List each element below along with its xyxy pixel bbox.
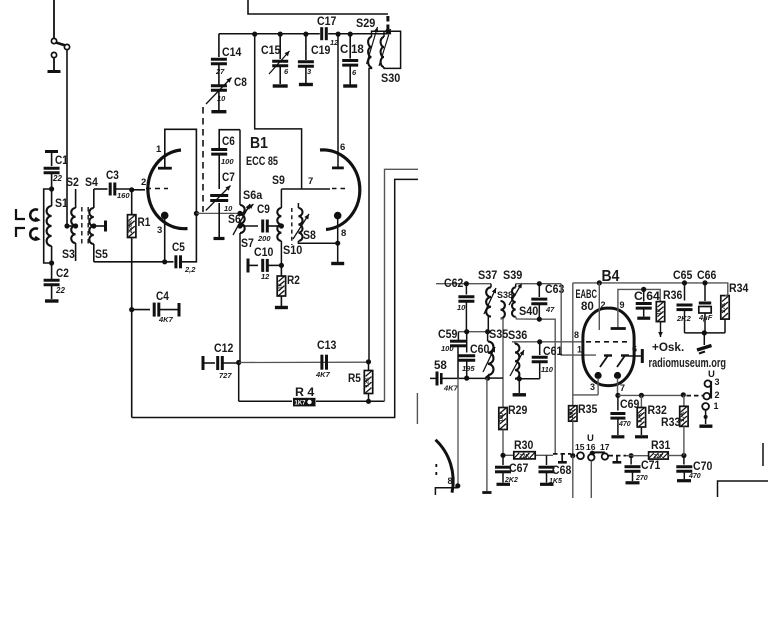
svg-text:2: 2 bbox=[141, 177, 146, 188]
resistor R34 bbox=[721, 283, 749, 333]
wire AVC down bbox=[482, 378, 491, 492]
svg-text:100: 100 bbox=[221, 157, 234, 166]
svg-text:C7: C7 bbox=[222, 172, 235, 184]
wire grid1 stub bbox=[132, 177, 147, 190]
ground C67 bbox=[497, 483, 511, 486]
svg-text:2K2: 2K2 bbox=[676, 314, 692, 323]
svg-text:C: C bbox=[340, 44, 348, 56]
node C71 bbox=[626, 453, 649, 458]
svg-text:22: 22 bbox=[52, 174, 62, 183]
svg-text:4μF: 4μF bbox=[698, 313, 713, 322]
svg-text:R35: R35 bbox=[578, 404, 598, 416]
svg-text:+Osk.: +Osk. bbox=[652, 342, 684, 354]
svg-text:R33: R33 bbox=[661, 417, 680, 429]
svg-text:C1: C1 bbox=[55, 155, 68, 167]
svg-text:S9: S9 bbox=[272, 175, 285, 187]
capacitor C3 bbox=[106, 170, 130, 200]
capacitor C65 bbox=[673, 270, 693, 333]
node C62 top bbox=[464, 281, 469, 286]
svg-text:R1: R1 bbox=[138, 217, 151, 229]
antenna jack upper bbox=[30, 210, 38, 221]
watermark bbox=[649, 356, 727, 370]
svg-text:4K7: 4K7 bbox=[158, 315, 174, 324]
oscillator column bbox=[239, 130, 241, 205]
svg-text:C5: C5 bbox=[172, 242, 185, 254]
cropped tube arc bbox=[436, 440, 461, 493]
switch wafer left bbox=[553, 454, 571, 462]
wire top feed bbox=[248, 0, 388, 14]
coil S4 S5 bbox=[85, 177, 108, 262]
svg-text:10: 10 bbox=[457, 303, 466, 312]
coil S39 S40 bbox=[503, 270, 538, 318]
svg-text:27K: 27K bbox=[680, 411, 686, 421]
svg-text:8: 8 bbox=[341, 228, 346, 239]
resistor R35 bbox=[569, 404, 598, 456]
svg-text:S4: S4 bbox=[85, 177, 98, 189]
svg-text:S7: S7 bbox=[241, 238, 254, 250]
wire S38 to R29 bbox=[501, 319, 504, 408]
node osc grid bbox=[237, 223, 242, 228]
svg-text:C3: C3 bbox=[106, 170, 119, 182]
capacitor C62 bbox=[444, 278, 474, 332]
svg-text:4K7: 4K7 bbox=[443, 384, 459, 393]
svg-text:3: 3 bbox=[590, 382, 595, 392]
coil S8 bbox=[293, 203, 338, 243]
grid 1 dashes bbox=[146, 188, 168, 190]
triode B1b cathode pin8 bbox=[334, 212, 346, 262]
capacitor C68 bbox=[539, 455, 572, 485]
svg-text:3: 3 bbox=[157, 225, 162, 236]
cathode dots B4 bbox=[595, 372, 622, 379]
svg-text:2M7: 2M7 bbox=[569, 408, 575, 418]
tube B4 envelope bbox=[583, 308, 634, 386]
svg-text:C67: C67 bbox=[509, 463, 528, 475]
ground C19 bbox=[299, 83, 313, 86]
svg-text:2: 2 bbox=[715, 390, 720, 400]
connector pin1 bbox=[702, 403, 709, 424]
svg-text:3: 3 bbox=[715, 377, 720, 387]
svg-text:1: 1 bbox=[156, 144, 162, 155]
svg-text:C15: C15 bbox=[261, 45, 281, 57]
coil S9 S10 bbox=[272, 175, 302, 265]
svg-text:110: 110 bbox=[541, 365, 554, 374]
svg-text:9: 9 bbox=[620, 300, 625, 310]
svg-text:6: 6 bbox=[340, 142, 345, 153]
svg-text:80: 80 bbox=[581, 301, 594, 313]
contact 16 bbox=[586, 433, 605, 461]
ground C70 bbox=[677, 479, 691, 482]
node C19 top bbox=[303, 31, 308, 36]
wire R35 below switch bbox=[572, 456, 574, 498]
wire AVC to R29 bbox=[488, 377, 503, 379]
bus wire top bbox=[219, 33, 388, 35]
tap wire S2/S3 bbox=[64, 223, 78, 228]
capacitor C18 bbox=[340, 31, 364, 84]
svg-text:58: 58 bbox=[434, 360, 447, 372]
svg-text:1K: 1K bbox=[657, 308, 663, 315]
coil S2 S3 bbox=[62, 177, 79, 261]
pin 7 wire bbox=[615, 378, 625, 398]
ground C7 bbox=[214, 237, 225, 240]
tube B1 label bbox=[246, 135, 278, 168]
coil S30 bbox=[379, 29, 401, 85]
grid dashes B4 bbox=[586, 341, 630, 343]
tap S4/S5 to core bbox=[91, 221, 105, 232]
svg-text:S8: S8 bbox=[303, 230, 316, 242]
svg-text:C61: C61 bbox=[543, 346, 563, 358]
wire S36 grid row bbox=[512, 330, 583, 344]
svg-text:47: 47 bbox=[545, 305, 555, 314]
wire contact16 down bbox=[590, 461, 592, 498]
node C15 top bbox=[252, 31, 257, 36]
svg-text:ECC 85: ECC 85 bbox=[246, 156, 278, 168]
svg-text:S29: S29 bbox=[356, 18, 375, 30]
svg-text:S30: S30 bbox=[381, 73, 400, 85]
svg-text:10: 10 bbox=[224, 204, 233, 213]
wire feedback up right bbox=[385, 169, 419, 401]
svg-text:S39: S39 bbox=[503, 270, 522, 282]
pin 6 stub bbox=[629, 344, 642, 363]
triode B1a plate pin1 bbox=[156, 129, 196, 213]
pin 3 wire bbox=[573, 378, 598, 395]
node C70 bbox=[681, 453, 686, 458]
wire S4 top to C3 bbox=[94, 188, 108, 190]
pin 9 wire bbox=[618, 289, 660, 327]
svg-text:C12: C12 bbox=[214, 343, 233, 355]
svg-text:S35: S35 bbox=[489, 329, 509, 341]
wire AVC bottom rail bbox=[132, 179, 418, 417]
dashes to connector bbox=[687, 395, 704, 397]
resistor R32 bbox=[637, 395, 667, 435]
wire C59 S35 row bbox=[458, 329, 490, 334]
cropped corner bbox=[435, 486, 458, 495]
node R5 bottom bbox=[366, 399, 371, 404]
wire S5 to AVC line bbox=[94, 261, 132, 263]
svg-text:C2: C2 bbox=[56, 268, 69, 280]
svg-text:22K: 22K bbox=[519, 454, 529, 460]
capacitor C6 bbox=[211, 130, 240, 189]
wire IF input bbox=[436, 283, 491, 285]
cropped grid dashes bbox=[435, 464, 437, 477]
link line dashed bbox=[202, 107, 204, 212]
svg-text:C68: C68 bbox=[552, 465, 572, 477]
svg-text:18: 18 bbox=[351, 44, 364, 56]
svg-text:15: 15 bbox=[575, 442, 585, 452]
wire R30 row bbox=[500, 453, 553, 458]
svg-text:S40: S40 bbox=[519, 306, 538, 318]
wire antenna feed bbox=[53, 0, 55, 38]
node R5 top bbox=[366, 359, 371, 364]
svg-text:22: 22 bbox=[55, 286, 65, 295]
core dashes osc bbox=[291, 208, 293, 245]
node C10 R2 bbox=[279, 263, 284, 268]
capacitor C17 bbox=[317, 16, 339, 47]
svg-text:C71: C71 bbox=[641, 460, 661, 472]
wire C59 down bbox=[457, 378, 459, 486]
svg-text:7: 7 bbox=[620, 383, 625, 393]
coil S6 S6a S7 bbox=[228, 190, 263, 362]
svg-text:S5: S5 bbox=[95, 249, 108, 261]
wire R4 row bbox=[239, 400, 385, 402]
svg-text:100: 100 bbox=[441, 344, 454, 353]
svg-text:C9: C9 bbox=[257, 204, 270, 216]
node S29 top bbox=[385, 29, 390, 34]
plug mark lower bbox=[16, 228, 25, 237]
svg-text:1K: 1K bbox=[278, 282, 284, 289]
svg-text:C19: C19 bbox=[311, 45, 330, 57]
resistor R5 bbox=[348, 362, 373, 402]
svg-text:EABC: EABC bbox=[576, 289, 598, 301]
wire C3 to grid bbox=[115, 188, 132, 190]
ground C18 bbox=[343, 84, 357, 87]
coil S1 bbox=[47, 189, 69, 263]
cathode line triode1 bbox=[157, 219, 167, 264]
grid 2 dashes bbox=[332, 188, 348, 190]
capacitor C69 bbox=[610, 395, 639, 435]
switch antenna selector bbox=[48, 38, 70, 71]
coil S36 bbox=[508, 330, 527, 379]
tube B4 label bbox=[602, 268, 620, 285]
svg-text:S36: S36 bbox=[508, 330, 527, 342]
svg-text:S2: S2 bbox=[66, 177, 79, 189]
svg-text:4K7: 4K7 bbox=[315, 370, 331, 379]
resistor R4 bbox=[293, 387, 316, 407]
ground C71 bbox=[626, 481, 640, 484]
wire C5 to plate tap bbox=[181, 213, 197, 261]
test point Osk bbox=[652, 322, 684, 354]
capacitor C5 bbox=[172, 242, 196, 274]
svg-text:470: 470 bbox=[688, 473, 701, 480]
wire S29 bottom long bbox=[369, 67, 372, 361]
svg-text:C62: C62 bbox=[444, 278, 463, 290]
svg-text:C6: C6 bbox=[222, 136, 235, 148]
svg-text:195: 195 bbox=[462, 364, 475, 373]
wire switch to band coil bbox=[66, 50, 68, 227]
wire osc to R4 bbox=[238, 363, 240, 402]
svg-text:S1: S1 bbox=[55, 198, 68, 210]
ground C68 bbox=[540, 483, 554, 486]
svg-text:2,2: 2,2 bbox=[184, 265, 196, 274]
svg-text:R34: R34 bbox=[729, 283, 749, 295]
svg-text:C14: C14 bbox=[222, 47, 242, 59]
antenna jack lower bbox=[30, 229, 38, 240]
wire R1 down AVC bbox=[131, 238, 133, 418]
bus wire B4 top bbox=[573, 283, 728, 296]
tube B4 type bbox=[576, 289, 598, 313]
resistor R31 bbox=[649, 440, 684, 460]
wire cathode row bbox=[618, 392, 686, 398]
svg-text:160: 160 bbox=[117, 191, 130, 200]
svg-text:8: 8 bbox=[574, 330, 579, 340]
capacitor C70 bbox=[676, 456, 712, 481]
capacitor 58 4K7 bbox=[430, 360, 459, 393]
svg-text:27: 27 bbox=[215, 67, 225, 76]
triode B1a cathode bbox=[161, 212, 169, 220]
wire S9 to grid2 bbox=[281, 176, 330, 189]
triode B1b envelope arc bbox=[320, 150, 360, 230]
resistor R36 bbox=[656, 290, 682, 322]
node grid1 bbox=[129, 187, 134, 192]
node AVC C4 bbox=[129, 307, 134, 312]
capacitor C13 bbox=[315, 340, 336, 379]
capacitor C63 bbox=[531, 284, 564, 320]
svg-text:C10: C10 bbox=[254, 247, 273, 259]
svg-text:S6a: S6a bbox=[243, 190, 263, 202]
pin 2 wire bbox=[597, 280, 606, 330]
svg-text:470: 470 bbox=[618, 421, 631, 428]
capacitor C59 bbox=[438, 329, 466, 378]
svg-text:C65: C65 bbox=[673, 270, 693, 282]
svg-text:220K: 220K bbox=[128, 220, 134, 233]
svg-text:27K: 27K bbox=[638, 412, 644, 422]
wire S36 C61 bottom bbox=[515, 376, 540, 381]
cropped wire segment bbox=[416, 393, 418, 424]
wire C65 C66 R34 bottom bbox=[685, 330, 726, 335]
capacitor C2 bbox=[44, 263, 69, 299]
svg-text:B4: B4 bbox=[602, 268, 620, 285]
wire to diode pin1 bbox=[561, 284, 596, 355]
ground C2 bbox=[45, 299, 59, 302]
svg-text:C59: C59 bbox=[438, 329, 457, 341]
ground R2 bbox=[275, 306, 288, 309]
triode B1a envelope arc bbox=[148, 150, 188, 229]
svg-text:S10: S10 bbox=[283, 245, 302, 257]
svg-text:R2: R2 bbox=[287, 275, 300, 287]
svg-text:B1: B1 bbox=[250, 135, 268, 152]
node osc C12 bbox=[236, 360, 241, 365]
wire C12 C13 row bbox=[239, 361, 369, 363]
coil S35 bbox=[483, 329, 509, 378]
connector U right bbox=[703, 369, 719, 411]
capacitor C71 bbox=[625, 456, 661, 482]
svg-text:100: 100 bbox=[499, 413, 505, 422]
core dashes antenna transformer bbox=[82, 207, 88, 246]
ground R32 bbox=[635, 435, 648, 438]
switch wafer right bbox=[609, 456, 627, 463]
resistor R33 bbox=[661, 395, 688, 456]
svg-text:6: 6 bbox=[632, 344, 637, 354]
svg-text:C66: C66 bbox=[697, 270, 716, 282]
ground S36 bbox=[513, 379, 526, 395]
svg-text:12K: 12K bbox=[365, 377, 371, 387]
svg-text:270: 270 bbox=[635, 475, 648, 482]
wire R35 column bbox=[572, 283, 574, 406]
svg-text:8: 8 bbox=[448, 476, 453, 486]
resistor R2 bbox=[277, 265, 300, 306]
node S1-C2 bbox=[49, 260, 54, 265]
contact 17 bbox=[600, 442, 610, 460]
ground cathode2 bbox=[331, 262, 344, 265]
svg-text:U: U bbox=[587, 433, 594, 444]
capacitor C67 bbox=[495, 455, 528, 484]
wire S39 top row bbox=[516, 281, 562, 286]
svg-text:R36: R36 bbox=[663, 290, 682, 302]
svg-text:radiomuseum.org: radiomuseum.org bbox=[649, 356, 727, 370]
svg-text:C60: C60 bbox=[470, 344, 489, 356]
capacitor C61 bbox=[532, 342, 563, 379]
svg-text:200: 200 bbox=[257, 234, 271, 243]
coil S29 bbox=[356, 18, 388, 67]
coil S38 bbox=[488, 290, 513, 331]
svg-text:R29: R29 bbox=[508, 405, 527, 417]
svg-text:S37: S37 bbox=[478, 270, 497, 282]
svg-text:727: 727 bbox=[219, 371, 232, 380]
ground C69 bbox=[611, 435, 624, 438]
svg-text:7: 7 bbox=[308, 176, 313, 187]
capacitor C19 bbox=[298, 34, 330, 83]
svg-text:R5: R5 bbox=[348, 373, 361, 385]
node S9 mid bbox=[279, 223, 284, 228]
capacitor C9 bbox=[240, 204, 281, 243]
wire plate1 row bbox=[196, 211, 242, 216]
svg-text:C8: C8 bbox=[234, 77, 247, 89]
svg-text:12: 12 bbox=[261, 272, 270, 281]
capacitor C60 bbox=[458, 332, 489, 378]
svg-text:17: 17 bbox=[600, 442, 610, 452]
triode B1b plate pin6 bbox=[332, 34, 345, 168]
capacitor C12 bbox=[203, 343, 239, 380]
svg-text:S3: S3 bbox=[62, 249, 75, 261]
node C1-S1 bbox=[49, 186, 54, 191]
svg-text:C70: C70 bbox=[693, 461, 712, 473]
capacitor C66 electrolytic bbox=[697, 270, 716, 333]
resistor R30 bbox=[514, 440, 535, 460]
svg-text:1: 1 bbox=[577, 345, 582, 355]
coil S37 bbox=[478, 270, 497, 317]
svg-text:C4: C4 bbox=[156, 291, 169, 303]
svg-text:R32: R32 bbox=[648, 405, 667, 417]
svg-text:C13: C13 bbox=[317, 340, 336, 352]
svg-text:R30: R30 bbox=[514, 440, 533, 452]
connector break marks bbox=[386, 16, 389, 30]
wire cathode row C5 bbox=[132, 261, 174, 263]
ground pin1 bbox=[699, 425, 712, 428]
capacitor C1 bbox=[44, 152, 69, 190]
node plate2 bus bbox=[336, 31, 341, 36]
ground C15 bbox=[273, 84, 288, 87]
contact 15 bbox=[575, 442, 585, 459]
capacitor C10 bbox=[248, 247, 281, 281]
capacitor C64 bbox=[634, 287, 660, 318]
diode plates B4 bbox=[600, 356, 629, 368]
capacitor C14 bbox=[211, 34, 242, 76]
capacitor C8 variable bbox=[206, 65, 247, 110]
cropped edge mark right bbox=[762, 443, 764, 466]
resistor R1 bbox=[128, 190, 151, 238]
capacitor C15 variable bbox=[261, 31, 290, 84]
wire AVC row bbox=[441, 376, 490, 381]
node switch 15 bbox=[570, 453, 575, 458]
svg-text:2: 2 bbox=[601, 300, 606, 310]
resistor R29 bbox=[499, 405, 528, 455]
svg-text:S38: S38 bbox=[497, 290, 513, 301]
chassis ground C66 bbox=[697, 333, 712, 354]
capacitor C4 bbox=[132, 291, 179, 324]
cropped corner bottom right bbox=[718, 481, 768, 497]
plug mark upper bbox=[16, 209, 25, 219]
svg-text:1: 1 bbox=[714, 401, 719, 411]
capacitor C7 variable bbox=[206, 172, 235, 237]
svg-text:R 4: R 4 bbox=[295, 387, 315, 399]
wire bus drop left bbox=[255, 34, 302, 189]
svg-text:R31: R31 bbox=[651, 440, 671, 452]
svg-text:C17: C17 bbox=[317, 16, 336, 28]
node plate1 tap bbox=[194, 211, 199, 216]
wire S40 bottom row bbox=[516, 317, 556, 454]
plate B4 bbox=[611, 327, 626, 330]
ground C8 bbox=[211, 110, 226, 113]
svg-text:27K: 27K bbox=[721, 302, 727, 312]
